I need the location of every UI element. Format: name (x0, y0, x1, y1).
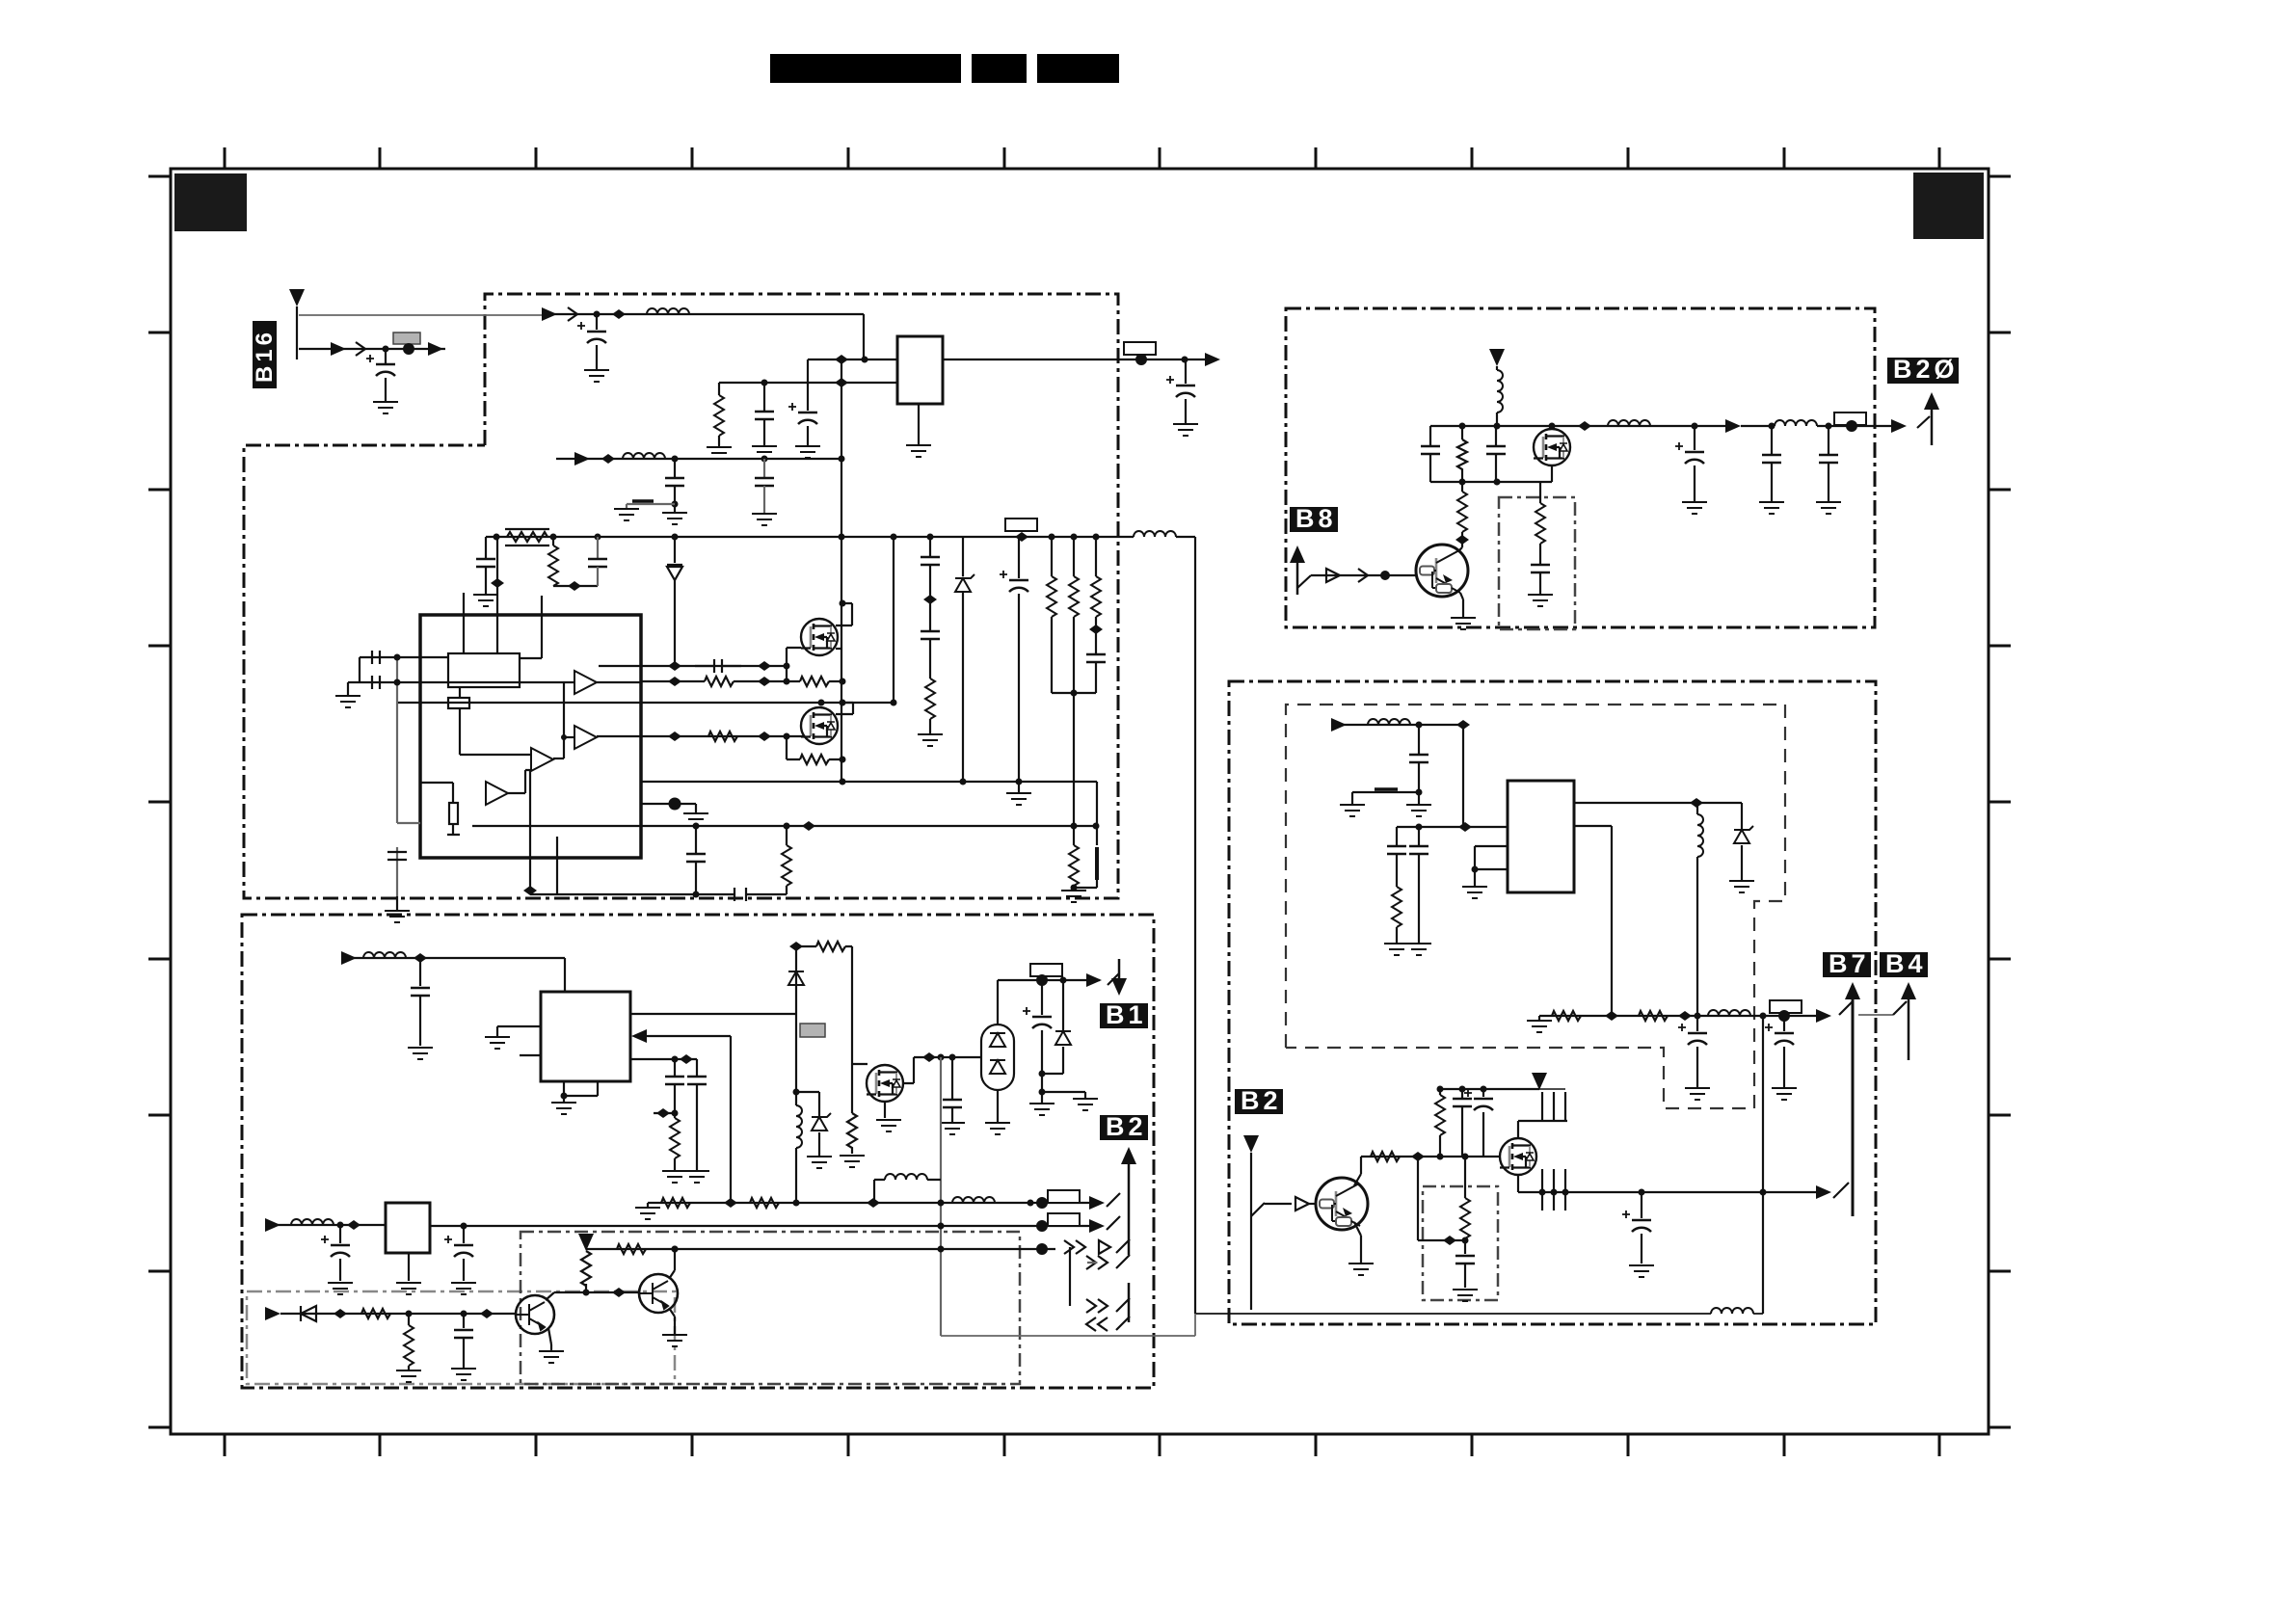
svg-text:B4: B4 (1885, 949, 1927, 978)
svg-text:B16: B16 (252, 329, 278, 383)
svg-text:B2: B2 (1106, 1112, 1147, 1141)
svg-text:B1: B1 (1106, 1000, 1147, 1029)
svg-text:B2: B2 (1241, 1086, 1282, 1115)
svg-text:B8: B8 (1295, 504, 1337, 533)
svg-text:B2Ø: B2Ø (1893, 355, 1959, 384)
svg-text:B7: B7 (1829, 949, 1870, 978)
